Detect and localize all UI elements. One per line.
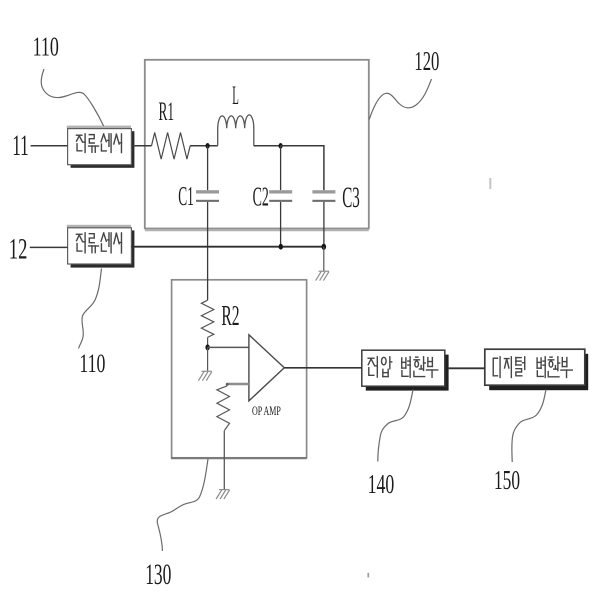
svg-text:110: 110: [79, 348, 105, 378]
inductor L: [218, 115, 254, 146]
wire: bus end down to ground: [323, 247, 325, 271]
leader from box150 to 150: [512, 390, 546, 463]
svg-text:L: L: [232, 80, 239, 110]
current sensor box 2: [68, 228, 132, 264]
ground (below R3): [216, 490, 229, 499]
node C junction dot: [205, 344, 209, 350]
wire: R1 to node A: [190, 145, 218, 147]
leader from 110 (top) to sensor1: [41, 69, 103, 126]
svg-text:11: 11: [12, 130, 29, 162]
svg-text:150: 150: [494, 464, 520, 495]
scan speck: [367, 573, 369, 578]
current sensor box 2 top highlight: [67, 225, 131, 228]
wire: sensor2 output bus: [131, 246, 324, 248]
svg-text:C2: C2: [253, 181, 269, 212]
wire: L to node B: [254, 145, 281, 147]
wire: R2 to node C: [207, 337, 209, 347]
current sensor box 1 top highlight: [67, 126, 131, 129]
capacitor C1 plates: [196, 190, 219, 193]
inverting stub left nub: [226, 383, 229, 386]
capacitor C2 plates: [269, 190, 292, 193]
leader from box130 to 130: [157, 459, 208, 551]
junction dot C2/bus: [279, 244, 283, 250]
resistor R1: [152, 133, 191, 160]
junction dot C3/bus: [322, 244, 327, 250]
wire: C2 bottom down to bus: [280, 202, 282, 247]
svg-text:140: 140: [368, 469, 395, 499]
svg-text:R2: R2: [221, 301, 239, 332]
digital converter box 150 shadow: [489, 354, 588, 390]
svg-text:OP AMP: OP AMP: [252, 404, 281, 418]
current sensor box 1: [68, 129, 132, 165]
block 120 (filter) box: [145, 60, 369, 229]
resistor R2: [201, 300, 213, 337]
svg-text:120: 120: [414, 46, 439, 76]
wire: R3 down to ground: [223, 431, 225, 489]
current sensor box 1 shadow: [71, 131, 135, 168]
svg-text:12: 12: [9, 233, 28, 266]
voltage converter box 140 shadow: [366, 355, 449, 391]
current sensor box 2 shadow: [71, 230, 135, 267]
wire: sensor1 to R1: [131, 145, 151, 147]
capacitor C3 plates: [312, 190, 335, 193]
wire: node C to op-amp + input: [208, 346, 249, 348]
leader from 120 to box 120: [369, 79, 431, 120]
node B junction dot: [279, 143, 283, 149]
digital converter box 150: [485, 349, 585, 385]
label: 디지털 변환부: [493, 357, 572, 378]
ground (below C3 bus): [316, 271, 329, 280]
op-amp U1: [249, 335, 284, 401]
label: 전류센서 (sensor 2): [76, 233, 121, 253]
leader from sensor2 to 110 (bottom): [79, 269, 102, 349]
svg-text:130: 130: [145, 558, 171, 591]
wire: op-amp output to box 140: [284, 367, 362, 369]
svg-text:R1: R1: [159, 96, 175, 126]
label: 전류센서 (sensor 1): [76, 134, 121, 153]
wire: node B down to C2: [280, 146, 282, 190]
wire: terminal 11 to sensor1: [31, 145, 68, 147]
scan smudge: [489, 178, 491, 189]
wire: terminal 12 to sensor2: [30, 246, 68, 248]
ground (below R2 node): [198, 371, 211, 380]
svg-text:C3: C3: [342, 182, 360, 214]
voltage converter box 140: [362, 350, 445, 386]
wire: C1 bottom down to R2: [207, 202, 209, 300]
label: 전압 변환부: [368, 357, 438, 377]
wire: node B to C3 branch corner: [281, 146, 324, 190]
svg-text:110: 110: [33, 31, 59, 62]
wire: box 140 to box 150: [449, 367, 485, 369]
wire: C3 bottom down to bus: [323, 202, 325, 247]
svg-text:C1: C1: [178, 180, 194, 211]
wire: node A down to C1: [207, 146, 209, 190]
resistor R3 (feedback, unlabeled): [217, 386, 230, 431]
leader from box140 to 140: [378, 390, 413, 462]
wire: node C down to ground: [207, 347, 209, 370]
block 130 (amplifier) box: [172, 280, 307, 458]
op-amp inverting input stub: [227, 383, 249, 386]
node A junction dot: [206, 143, 210, 149]
